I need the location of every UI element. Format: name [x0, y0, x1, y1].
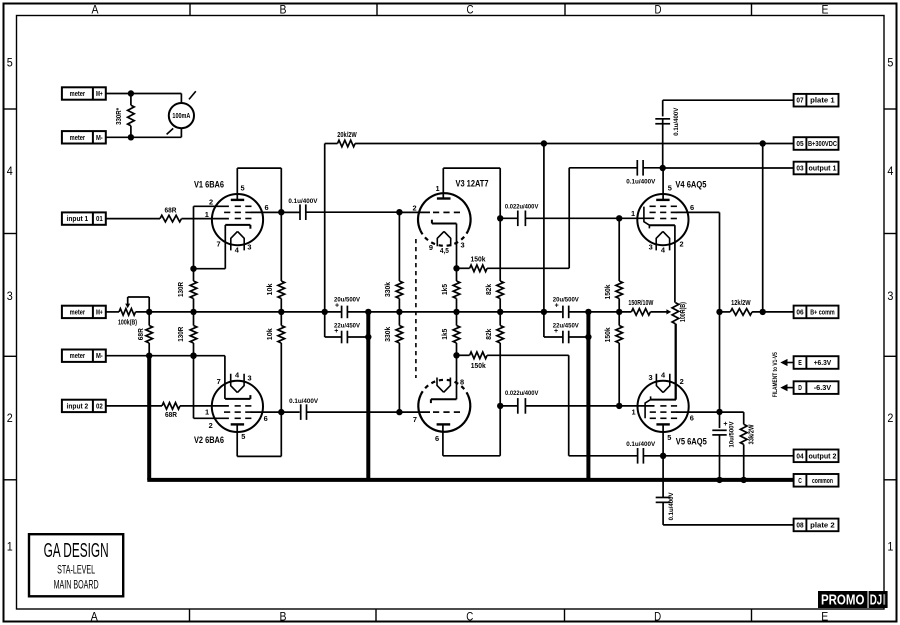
- svg-text:2: 2: [680, 240, 684, 249]
- svg-text:D: D: [654, 609, 661, 623]
- svg-text:E: E: [822, 2, 829, 16]
- svg-text:4,5: 4,5: [440, 248, 449, 255]
- svg-text:3: 3: [7, 289, 13, 303]
- svg-text:68R: 68R: [165, 207, 177, 214]
- svg-text:0.1u/400V: 0.1u/400V: [626, 179, 656, 186]
- svg-text:+: +: [554, 328, 558, 335]
- svg-text:5: 5: [887, 55, 893, 69]
- svg-text:5: 5: [241, 183, 245, 192]
- svg-text:100R(B): 100R(B): [680, 302, 687, 322]
- svg-text:PROMO: PROMO: [821, 592, 865, 608]
- svg-text:07: 07: [796, 96, 803, 105]
- svg-text:D: D: [655, 2, 662, 16]
- svg-text:V3 12AT7: V3 12AT7: [456, 177, 489, 188]
- svg-text:D: D: [798, 383, 802, 392]
- svg-text:20k/2W: 20k/2W: [337, 132, 357, 139]
- svg-text:V4 6AQ5: V4 6AQ5: [675, 178, 706, 189]
- svg-text:+6.3V: +6.3V: [814, 358, 832, 367]
- svg-text:2: 2: [209, 198, 213, 207]
- svg-text:M-: M-: [96, 133, 103, 142]
- svg-text:5: 5: [241, 432, 245, 441]
- svg-text:3: 3: [648, 373, 652, 382]
- svg-text:05: 05: [796, 139, 803, 148]
- svg-text:10k: 10k: [267, 283, 274, 295]
- svg-text:MAIN BOARD: MAIN BOARD: [54, 578, 99, 592]
- svg-text:150k: 150k: [605, 327, 612, 342]
- svg-text:9: 9: [429, 243, 433, 252]
- svg-text:0.1u/400V: 0.1u/400V: [288, 198, 318, 205]
- svg-text:1: 1: [887, 539, 893, 553]
- svg-text:C: C: [466, 609, 473, 623]
- svg-text:3: 3: [887, 289, 893, 303]
- svg-text:C: C: [798, 476, 802, 485]
- svg-text:FILAMENT to V1-V5: FILAMENT to V1-V5: [772, 352, 779, 397]
- svg-text:150k: 150k: [471, 363, 486, 370]
- svg-text:B+300VDC: B+300VDC: [808, 139, 837, 148]
- svg-text:06: 06: [796, 307, 803, 316]
- svg-text:68R: 68R: [138, 328, 145, 340]
- svg-text:output 2: output 2: [808, 451, 836, 460]
- svg-text:02: 02: [96, 401, 103, 410]
- svg-text:2: 2: [680, 377, 684, 386]
- svg-text:0.022u/400V: 0.022u/400V: [505, 390, 539, 397]
- svg-text:130R: 130R: [178, 327, 185, 342]
- svg-text:6: 6: [435, 434, 439, 443]
- svg-text:M+: M+: [96, 307, 103, 316]
- svg-text:2: 2: [209, 421, 213, 430]
- svg-text:V2 6BA6: V2 6BA6: [194, 434, 224, 445]
- svg-text:2: 2: [7, 411, 13, 425]
- svg-text:B: B: [280, 609, 287, 623]
- svg-text:5: 5: [667, 433, 671, 442]
- svg-text:M-: M-: [96, 351, 103, 360]
- svg-text:STA-LEVEL: STA-LEVEL: [57, 562, 95, 576]
- svg-text:meter: meter: [70, 89, 86, 98]
- svg-text:V1 6BA6: V1 6BA6: [194, 178, 224, 189]
- svg-text:0.022u/400V: 0.022u/400V: [505, 204, 539, 211]
- svg-text:meter: meter: [70, 351, 86, 360]
- svg-text:7: 7: [413, 415, 417, 424]
- svg-text:E: E: [798, 358, 802, 367]
- svg-text:plate 1: plate 1: [810, 96, 835, 105]
- svg-text:DJ: DJ: [870, 592, 883, 608]
- svg-text:3: 3: [461, 240, 465, 249]
- svg-text:150R/10W: 150R/10W: [628, 300, 653, 307]
- svg-text:3: 3: [247, 242, 251, 251]
- svg-text:A: A: [92, 2, 100, 16]
- svg-text:+: +: [335, 302, 339, 309]
- svg-text:input 1: input 1: [67, 214, 89, 223]
- svg-text:10k: 10k: [267, 328, 274, 340]
- svg-text:330k: 330k: [385, 282, 392, 297]
- svg-text:5: 5: [7, 55, 13, 69]
- svg-text:3: 3: [649, 242, 653, 251]
- svg-text:input 2: input 2: [67, 401, 89, 410]
- svg-text:3: 3: [247, 374, 251, 383]
- svg-text:C: C: [467, 2, 474, 16]
- svg-text:0.1u/400V: 0.1u/400V: [668, 492, 675, 521]
- svg-text:1: 1: [436, 184, 440, 193]
- svg-text:-6.3V: -6.3V: [814, 383, 832, 392]
- svg-text:6: 6: [690, 414, 694, 423]
- svg-text:33k/2W: 33k/2W: [749, 424, 756, 444]
- svg-text:1: 1: [631, 209, 635, 218]
- svg-text:0.1u/400V: 0.1u/400V: [289, 398, 319, 405]
- svg-text:E: E: [821, 609, 828, 623]
- svg-text:common: common: [812, 476, 833, 485]
- svg-text:82k: 82k: [486, 329, 493, 340]
- svg-text:12k/2W: 12k/2W: [731, 300, 751, 307]
- svg-text:100mA: 100mA: [172, 111, 190, 120]
- svg-text:1: 1: [205, 408, 209, 417]
- svg-text:82k: 82k: [486, 284, 493, 295]
- svg-text:1: 1: [7, 539, 13, 553]
- svg-text:1: 1: [205, 210, 209, 219]
- svg-text:01: 01: [96, 214, 103, 223]
- svg-text:100k(B): 100k(B): [118, 320, 137, 327]
- svg-text:10u/500V: 10u/500V: [728, 421, 735, 448]
- svg-text:4: 4: [7, 164, 13, 178]
- svg-text:2: 2: [887, 411, 893, 425]
- svg-text:B: B: [280, 2, 287, 16]
- svg-text:GA DESIGN: GA DESIGN: [44, 540, 109, 562]
- svg-text:4: 4: [887, 164, 893, 178]
- svg-text:7: 7: [217, 377, 221, 386]
- svg-text:08: 08: [796, 520, 803, 529]
- svg-text:03: 03: [796, 164, 803, 173]
- svg-text:68R: 68R: [165, 412, 177, 419]
- svg-text:7: 7: [217, 239, 221, 248]
- svg-text:8: 8: [460, 378, 464, 387]
- svg-text:6: 6: [690, 203, 694, 212]
- svg-text:150k: 150k: [605, 284, 612, 299]
- svg-text:output 1: output 1: [808, 164, 836, 173]
- svg-text:6: 6: [264, 203, 268, 212]
- svg-text:meter: meter: [70, 133, 86, 142]
- svg-text:0.1u/400V: 0.1u/400V: [626, 441, 656, 448]
- svg-text:A: A: [91, 609, 99, 623]
- svg-text:150k: 150k: [471, 257, 486, 264]
- svg-text:meter: meter: [70, 307, 86, 316]
- svg-text:B+ comm: B+ comm: [810, 307, 835, 316]
- svg-text:130R: 130R: [178, 282, 185, 297]
- svg-text:1k5: 1k5: [442, 329, 449, 340]
- svg-text:0.1u/400V: 0.1u/400V: [673, 107, 680, 136]
- svg-text:04: 04: [796, 451, 804, 460]
- svg-text:+: +: [723, 421, 727, 428]
- svg-text:330k: 330k: [385, 327, 392, 342]
- svg-text:M+: M+: [96, 89, 103, 98]
- svg-text:6: 6: [264, 414, 268, 423]
- svg-text:5: 5: [668, 183, 672, 192]
- svg-text:plate 2: plate 2: [810, 520, 835, 529]
- svg-text:V5 6AQ5: V5 6AQ5: [676, 435, 707, 446]
- svg-text:+: +: [334, 328, 338, 335]
- svg-text:1k5: 1k5: [442, 284, 449, 295]
- svg-text:1: 1: [631, 407, 635, 416]
- svg-text:2: 2: [413, 204, 417, 213]
- svg-text:+: +: [555, 302, 559, 309]
- svg-text:330R*: 330R*: [116, 108, 123, 125]
